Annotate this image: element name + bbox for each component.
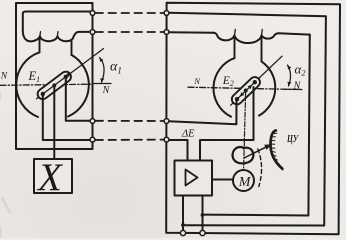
svg-text:N: N [0, 71, 8, 81]
svg-text:ЦУ: ЦУ [286, 134, 299, 145]
angle arc alpha2 [288, 65, 291, 86]
node N axis of E2 (dash-dot) [188, 87, 302, 89]
wire rotor E1 upper terminal to terminal [66, 78, 90, 121]
svg-text:ΔE: ΔE [181, 129, 195, 140]
amplifier box [175, 161, 213, 196]
wire rotor E2 right terminal to amp [200, 87, 254, 161]
rotor axis line E1 [37, 49, 104, 99]
neck link E1 left [39, 37, 41, 52]
arrowheads on rotor axis E2 [248, 85, 253, 90]
wire net2 right segment down to amp supply [203, 35, 310, 216]
node N axis of E1 (dash-dot) [0, 84, 93, 85]
device X box [34, 159, 72, 193]
mechanical shaft (dash-dot) E2 rotor to motor [244, 93, 246, 170]
rotor housing circle E2 left arc [213, 58, 234, 117]
amplifier triangle [186, 170, 198, 186]
connection line wire 4 (dashed) [96, 139, 165, 141]
supply terminal circles [180, 230, 205, 235]
wire N axis right segment E2 [284, 88, 301, 90]
stator winding cap E1 [23, 12, 91, 32]
neck link E2 left [234, 37, 236, 59]
connection line wire 3 (dashed) [96, 120, 165, 122]
wire N axis right segment E1 [94, 83, 111, 85]
case of receiver unit E2 [166, 3, 340, 235]
motor M circle [233, 170, 254, 191]
dashed rotation arc [258, 149, 262, 187]
rotor E1 capsule [43, 77, 66, 94]
svg-text:M: M [238, 175, 252, 190]
wire rotor E1 lower terminal to terminal [43, 96, 90, 141]
connection line wire 2 (dashed) [96, 31, 165, 33]
wire net1 stator supply [169, 13, 326, 226]
shaft wire rotor E1 center to X [53, 87, 55, 159]
wire amp bottom-right to supply terminal [202, 196, 204, 232]
rotor housing circle E1 right arc [68, 55, 89, 117]
cusp spike E2 left [234, 29, 237, 34]
wire net2 left segment [169, 31, 214, 34]
wire amplifier to motor [212, 179, 233, 181]
reducer blob [233, 147, 254, 163]
junction dot net1/amp-supply [181, 223, 185, 227]
scale ticks [271, 133, 283, 170]
neck link E2 right [261, 37, 263, 62]
stator winding E2 (wavy) [214, 33, 310, 43]
cusp spike E2 right [261, 29, 264, 34]
arrowhead on rotor axis E1 [66, 73, 71, 77]
rotor E2 terminal dots [235, 97, 239, 101]
rotor housing circle E1 left arc [16, 52, 39, 117]
cusp spike E1 left [39, 32, 42, 36]
cusp spike E1 right [56, 32, 59, 36]
svg-text:X: X [36, 156, 64, 199]
wire amp input left [169, 140, 188, 161]
svg-text:N: N [102, 85, 111, 96]
wire rotor E2 left terminal to line [169, 102, 237, 125]
pointer arrow to scale [244, 147, 267, 158]
rotor housing circle E2 right arc [259, 61, 275, 115]
case of transmitter unit E1 [16, 3, 93, 149]
svg-text:N: N [293, 81, 302, 92]
rotor E2 capsule [237, 82, 255, 99]
angle arc alpha1 [100, 58, 105, 83]
rotor axis line E2 [231, 56, 282, 105]
noise marks [1, 93, 11, 238]
scale arc [270, 130, 282, 168]
wire amp bottom-left to supply terminal [182, 196, 184, 232]
connection line wire 1 (dashed) [96, 12, 165, 14]
junction dot net2/amp-supply [201, 213, 205, 217]
rotor E1 terminal dots [41, 92, 45, 96]
neck link E1 right [71, 40, 73, 55]
terminal circles on E2 case [164, 11, 169, 142]
terminal circles on E1 case [90, 11, 95, 142]
